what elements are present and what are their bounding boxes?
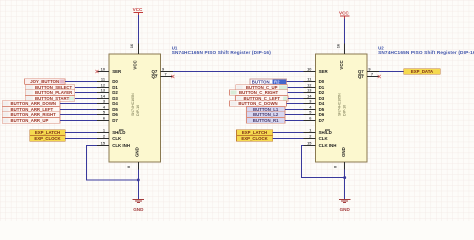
wire U1 pin8 to GND bbox=[137, 170, 139, 200]
svg-text:SH/LD: SH/LD bbox=[112, 130, 125, 135]
net label EXP_LATCH (U1) bbox=[30, 130, 65, 136]
svg-text:EXP_CLOCK: EXP_CLOCK bbox=[34, 136, 61, 141]
no-connect X U2 pin7 Q7bar bbox=[378, 75, 381, 78]
svg-text:7: 7 bbox=[371, 71, 373, 76]
svg-text:GND: GND bbox=[340, 207, 351, 212]
wire EXP_LATCH to U2 SH/LD bbox=[273, 132, 304, 134]
wire VCC to U2 pin16 bbox=[344, 19, 346, 44]
svg-text:VCC: VCC bbox=[339, 60, 344, 70]
svg-text:EXP_LATCH: EXP_LATCH bbox=[242, 130, 267, 135]
net label EXP_LATCH (U2) bbox=[236, 130, 272, 136]
svg-text:GND: GND bbox=[134, 147, 139, 157]
wire BUTTON_ARR_DOWN to U1 D4 bbox=[60, 103, 97, 105]
svg-text:R2: R2 bbox=[274, 79, 280, 84]
svg-text:BUTTON_: BUTTON_ bbox=[252, 79, 273, 84]
wire U1 CLK INH to GND net bbox=[87, 146, 139, 180]
svg-text:BUTTON_ARR_RIGHT: BUTTON_ARR_RIGHT bbox=[11, 112, 57, 117]
wire BUTTON_R2 to U2 D0 bbox=[287, 81, 304, 83]
wire BUTTON_L2 to U2 D6 bbox=[285, 114, 304, 116]
svg-text:EXP_CLOCK: EXP_CLOCK bbox=[241, 136, 268, 141]
power VCC U1 bbox=[133, 7, 143, 15]
svg-text:EXP_LATCH: EXP_LATCH bbox=[35, 130, 60, 135]
wire EXP_LATCH to U1 SH/LD bbox=[65, 132, 97, 134]
IC U1 SN74HC165N PISO shift register bbox=[97, 44, 173, 170]
svg-text:SN74HC165N PISO Shift Register: SN74HC165N PISO Shift Register (DIP-16) bbox=[172, 50, 272, 55]
wire BUTTON_C_DOWN to U2 D4 bbox=[287, 103, 304, 105]
net label BUTTON_L1 bbox=[246, 107, 285, 113]
wire BUTTON_ARR_LEFT to U1 D5 bbox=[60, 109, 97, 111]
svg-text:CLK: CLK bbox=[112, 136, 122, 141]
svg-text:VCC: VCC bbox=[132, 60, 137, 70]
svg-text:BUTTON_ARR_DOWN: BUTTON_ARR_DOWN bbox=[11, 101, 57, 106]
net label BUTTON_C_DOWN bbox=[230, 101, 287, 107]
svg-text:D6: D6 bbox=[112, 112, 118, 117]
svg-text:EXP_DATA: EXP_DATA bbox=[411, 69, 433, 74]
net label BUTTON_PLAYER bbox=[25, 90, 75, 96]
svg-text:DIP-16: DIP-16 bbox=[343, 105, 347, 116]
power VCC U2 bbox=[339, 11, 349, 19]
wire BUTTON_SELECT to U1 D1 bbox=[75, 87, 97, 89]
wire BUTTON_C_UP to U2 D1 bbox=[288, 87, 304, 89]
svg-text:10: 10 bbox=[307, 66, 311, 71]
wire U2 pin8 to GND bbox=[344, 170, 346, 200]
pin numbers U1 bbox=[101, 43, 167, 168]
svg-text:D4: D4 bbox=[319, 101, 325, 106]
wire U1 Q7 to U2 SER bbox=[173, 71, 304, 73]
svg-text:D2: D2 bbox=[112, 90, 118, 95]
svg-text:SN74HC165N: SN74HC165N bbox=[338, 93, 342, 116]
net label BUTTON_SELECT bbox=[25, 85, 75, 91]
svg-text:D7: D7 bbox=[112, 118, 118, 123]
svg-text:DIP-16: DIP-16 bbox=[136, 105, 140, 116]
svg-text:BUTTON_PLAYER: BUTTON_PLAYER bbox=[35, 90, 73, 95]
net label BUTTON_ARR_UP bbox=[2, 118, 60, 124]
net label BUTTON_ARR_RIGHT bbox=[2, 112, 60, 118]
pin numbers U2 bbox=[307, 43, 373, 168]
net label BUTTON_R2 (editing, selected) bbox=[250, 79, 287, 84]
svg-text:D6: D6 bbox=[319, 112, 325, 117]
IC U2 SN74HC165N PISO shift register bbox=[303, 44, 379, 170]
net label EXP_DATA bbox=[404, 69, 440, 75]
svg-text:SER: SER bbox=[112, 69, 122, 74]
junction U1 GND node bbox=[137, 178, 140, 181]
svg-text:BUTTON_C_RIGHT: BUTTON_C_RIGHT bbox=[239, 90, 278, 95]
svg-text:SN74HC165N PISO Shift Register: SN74HC165N PISO Shift Register (DIP-16) bbox=[378, 50, 474, 55]
net label BUTTON_C_LEFT bbox=[236, 96, 289, 102]
svg-text:JOY_BUTTON: JOY_BUTTON bbox=[30, 79, 59, 84]
power GND U2 bbox=[339, 200, 351, 213]
wire BUTTON_C_RIGHT to U2 D2 bbox=[288, 92, 304, 94]
svg-text:10: 10 bbox=[101, 66, 105, 71]
designator U2 bbox=[378, 45, 474, 55]
svg-text:Q7: Q7 bbox=[151, 74, 157, 79]
svg-text:CLK INH: CLK INH bbox=[112, 143, 130, 148]
net label EXP_CLOCK (U1) bbox=[30, 136, 65, 142]
svg-text:Q7: Q7 bbox=[358, 74, 364, 79]
net label BUTTON_ARR_DOWN bbox=[2, 101, 60, 107]
wire BUTTON_L1 to U2 D5 bbox=[285, 109, 304, 111]
svg-text:7: 7 bbox=[165, 71, 167, 76]
net label BUTTON_C_UP bbox=[236, 85, 288, 91]
net label BUTTON_C_RIGHT bbox=[230, 90, 288, 96]
junction U2 GND node bbox=[343, 176, 346, 179]
svg-text:BUTTON_C_DOWN: BUTTON_C_DOWN bbox=[238, 101, 277, 106]
wire BUTTON_R1 to U2 D7 bbox=[285, 120, 304, 122]
svg-text:SH/LD: SH/LD bbox=[319, 130, 332, 135]
power GND U1 bbox=[133, 200, 145, 213]
svg-text:D4: D4 bbox=[112, 101, 118, 106]
wire VCC to U1 pin16 bbox=[137, 15, 139, 43]
designator U1 bbox=[172, 45, 272, 55]
svg-text:D0: D0 bbox=[112, 79, 118, 84]
svg-text:SN74HC165N: SN74HC165N bbox=[131, 93, 135, 116]
svg-text:D0: D0 bbox=[319, 79, 325, 84]
svg-text:CLK INH: CLK INH bbox=[319, 143, 337, 148]
svg-text:D2: D2 bbox=[319, 90, 325, 95]
svg-text:BUTTON_R1: BUTTON_R1 bbox=[253, 118, 279, 123]
wire BUTTON_C_LEFT to U2 D3 bbox=[288, 98, 304, 100]
wire EXP_CLOCK to U1 CLK bbox=[65, 138, 97, 140]
no-connect X U1 pin10 SER bbox=[95, 70, 98, 73]
svg-text:GND: GND bbox=[341, 147, 346, 157]
svg-text:BUTTON_L2: BUTTON_L2 bbox=[253, 112, 279, 117]
net label BUTTON_R1 bbox=[246, 118, 285, 124]
wire BUTTON_ARR_UP to U1 D7 bbox=[60, 120, 97, 122]
svg-text:SER: SER bbox=[319, 69, 329, 74]
wire U2 Q7 to EXP_DATA bbox=[379, 71, 404, 73]
wire BUTTON_START to U1 D3 bbox=[75, 98, 97, 100]
net label BUTTON_ARR_LEFT bbox=[2, 107, 60, 113]
svg-text:CLK: CLK bbox=[319, 136, 329, 141]
svg-text:VCC: VCC bbox=[339, 11, 349, 16]
svg-text:VCC: VCC bbox=[133, 7, 143, 12]
wire JOY_BUTTON to U1 D0 bbox=[65, 81, 97, 83]
no-connect X U1 pin7 Q7bar bbox=[171, 75, 174, 78]
net label BUTTON_L2 bbox=[246, 112, 285, 118]
wire EXP_CLOCK to U2 CLK bbox=[273, 138, 304, 140]
svg-text:D7: D7 bbox=[319, 118, 325, 123]
net label EXP_CLOCK (U2) bbox=[236, 136, 272, 142]
wire BUTTON_ARR_RIGHT to U1 D6 bbox=[60, 114, 97, 116]
wire BUTTON_PLAYER to U1 D2 bbox=[75, 92, 97, 94]
svg-text:BUTTON_ARR_UP: BUTTON_ARR_UP bbox=[11, 118, 49, 123]
svg-text:GND: GND bbox=[133, 207, 144, 212]
net label BUTTON_START bbox=[25, 96, 75, 102]
net label JOY_BUTTON bbox=[24, 79, 65, 85]
wire U2 CLK INH to GND net bbox=[302, 146, 345, 178]
